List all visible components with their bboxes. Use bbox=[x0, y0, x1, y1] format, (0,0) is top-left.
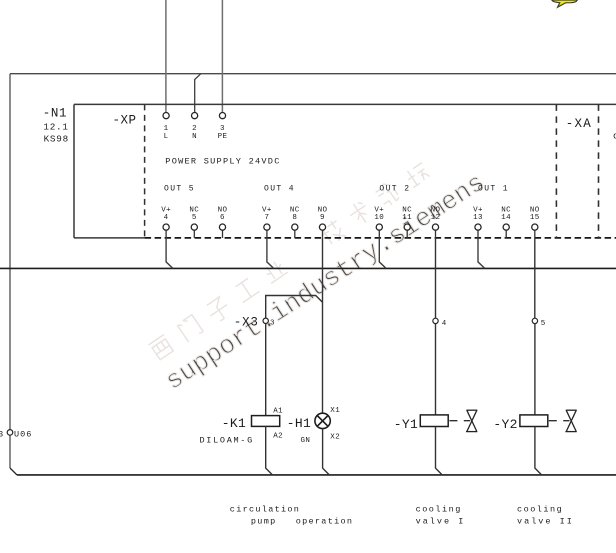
svg-text:circulation: circulation bbox=[230, 504, 300, 514]
wire V+10 to bus bbox=[379, 238, 386, 269]
wire L feed bbox=[165, 0, 167, 113]
wire V+13 to bus bbox=[478, 238, 485, 269]
svg-text:KS98: KS98 bbox=[44, 134, 69, 145]
power supply U -N1 box bbox=[74, 104, 616, 238]
terminal XP:2 N bbox=[192, 113, 198, 141]
valve symbol Y1 bbox=[449, 410, 477, 431]
svg-text:V+: V+ bbox=[473, 206, 483, 214]
svg-text:pump operation: pump operation bbox=[251, 516, 353, 526]
terminal XP:1 L bbox=[163, 113, 169, 141]
svg-text:OUT 5: OUT 5 bbox=[164, 184, 195, 193]
svg-text:14: 14 bbox=[501, 214, 511, 222]
svg-text:7: 7 bbox=[264, 214, 269, 222]
svg-text:3: 3 bbox=[270, 319, 275, 327]
svg-text:POWER SUPPLY 24VDC: POWER SUPPLY 24VDC bbox=[165, 156, 280, 166]
svg-text:PE: PE bbox=[218, 133, 228, 141]
svg-text:4: 4 bbox=[442, 320, 447, 328]
svg-text:valve I: valve I bbox=[416, 516, 466, 526]
svg-text:13: 13 bbox=[473, 214, 483, 222]
solenoid coil Y1 bbox=[420, 415, 448, 427]
wire Y1 to bottom bus bbox=[436, 427, 443, 476]
solenoid coil Y2 bbox=[520, 415, 548, 427]
terminal out row labels bbox=[161, 206, 540, 222]
svg-text:A2: A2 bbox=[273, 433, 283, 441]
svg-text:cooling: cooling bbox=[517, 504, 563, 514]
svg-text:-Y2: -Y2 bbox=[493, 417, 517, 432]
terminal U06 on left rail bbox=[0, 429, 32, 439]
svg-text:-N1: -N1 bbox=[43, 107, 67, 121]
svg-text:OUT 4: OUT 4 bbox=[264, 184, 295, 193]
svg-text:11: 11 bbox=[402, 214, 412, 222]
wire V+4 to bus bbox=[166, 238, 173, 269]
svg-text:GN: GN bbox=[301, 437, 311, 445]
svg-text:10: 10 bbox=[374, 214, 384, 222]
svg-text:valve II: valve II bbox=[517, 516, 574, 526]
svg-text:OUT 1: OUT 1 bbox=[478, 184, 509, 193]
svg-text:12.1: 12.1 bbox=[43, 122, 68, 133]
caption circulation pump operation bbox=[230, 504, 354, 526]
lamp H1 bbox=[315, 413, 330, 428]
svg-text:5: 5 bbox=[541, 320, 546, 328]
wire X3:4 to Y1 bbox=[435, 324, 437, 415]
svg-text:NC: NC bbox=[501, 206, 511, 214]
wire NO9 down to lamp bbox=[322, 238, 324, 413]
fake CJK glyph row bbox=[148, 334, 174, 360]
terminal X3:5 bbox=[532, 318, 546, 328]
caption cooling valve II bbox=[517, 504, 574, 526]
svg-text:-Y1: -Y1 bbox=[394, 417, 418, 432]
svg-text:NC: NC bbox=[290, 206, 300, 214]
svg-text:-XP: -XP bbox=[113, 113, 137, 127]
svg-text:A1: A1 bbox=[273, 407, 283, 415]
wire Y2 to bottom bus bbox=[535, 427, 542, 476]
svg-text:V+: V+ bbox=[161, 206, 171, 214]
svg-text:8: 8 bbox=[292, 214, 297, 222]
wire X3:3 to K1 coil bbox=[265, 324, 267, 416]
terminal strip -XA dashed separators bbox=[556, 104, 598, 238]
relay coil K1 bbox=[252, 416, 280, 427]
svg-text:NC: NC bbox=[189, 206, 199, 214]
svg-text:-K1: -K1 bbox=[222, 416, 246, 431]
svg-text:L: L bbox=[164, 133, 169, 141]
svg-text:cooling: cooling bbox=[416, 504, 462, 514]
svg-text:6: 6 bbox=[220, 214, 225, 222]
wire branch to K1 column bbox=[266, 296, 323, 319]
terminal XP:3 PE bbox=[218, 113, 228, 141]
svg-text:15: 15 bbox=[530, 214, 540, 222]
terminal circles bottom row bbox=[163, 224, 538, 230]
terminal X3:4 bbox=[433, 318, 447, 328]
svg-text:4: 4 bbox=[164, 214, 169, 222]
caption cooling valve I bbox=[416, 504, 466, 526]
svg-text:2: 2 bbox=[192, 125, 197, 133]
wire K1 to bottom bus bbox=[266, 426, 273, 475]
svg-text:NO: NO bbox=[530, 206, 540, 214]
bottom bus wire bbox=[17, 474, 616, 476]
svg-text:X1: X1 bbox=[330, 407, 340, 415]
svg-text:X2: X2 bbox=[330, 433, 340, 441]
wire PE feed bbox=[221, 0, 223, 113]
svg-text:-XA: -XA bbox=[566, 117, 592, 131]
svg-text:V+: V+ bbox=[374, 206, 384, 214]
svg-text:-H1: -H1 bbox=[287, 416, 311, 431]
wire top feed horizontal bbox=[10, 73, 616, 75]
wire N branch with chamfer bbox=[195, 74, 201, 113]
svg-text:1: 1 bbox=[164, 125, 169, 133]
wire left chamfer into bottom bus bbox=[10, 468, 17, 475]
svg-text:5: 5 bbox=[192, 214, 197, 222]
svg-text:NO: NO bbox=[431, 206, 441, 214]
wire NO12 down bbox=[435, 238, 437, 319]
svg-text:V+: V+ bbox=[262, 206, 272, 214]
svg-text:9: 9 bbox=[320, 214, 325, 222]
speech bubble icon bbox=[552, 0, 578, 7]
watermark bbox=[148, 159, 491, 397]
svg-text:3: 3 bbox=[220, 125, 225, 133]
terminal ticks to box edge bbox=[166, 230, 535, 238]
svg-text:NO: NO bbox=[318, 206, 328, 214]
terminal X3:3 bbox=[263, 318, 275, 327]
wire left vertical bbox=[9, 74, 11, 468]
svg-text:U06: U06 bbox=[14, 429, 32, 439]
svg-text:12: 12 bbox=[431, 214, 441, 222]
+24V bus wire bbox=[0, 267, 616, 269]
wire X3:5 to Y2 bbox=[534, 324, 536, 415]
svg-text:NO: NO bbox=[218, 206, 228, 214]
svg-text:N: N bbox=[192, 133, 197, 141]
svg-text:-X3: -X3 bbox=[234, 315, 259, 329]
svg-text:DILOAM-G: DILOAM-G bbox=[200, 435, 254, 445]
valve symbol Y2 bbox=[549, 410, 577, 431]
svg-text:OUT 2: OUT 2 bbox=[379, 184, 410, 193]
svg-text:3: 3 bbox=[0, 429, 3, 439]
wire V+7 to bus bbox=[267, 238, 274, 269]
wire NO15 down bbox=[534, 238, 536, 319]
wire H1 to bottom bus bbox=[323, 429, 330, 475]
svg-text:NC: NC bbox=[402, 206, 412, 214]
